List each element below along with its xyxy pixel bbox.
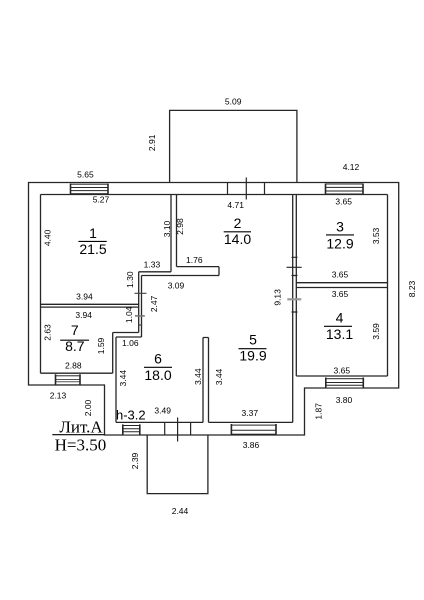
svg-text:18.0: 18.0 <box>144 367 171 383</box>
ticks wall A <box>135 293 147 325</box>
svg-text:9.13: 9.13 <box>273 289 283 306</box>
svg-text:3.37: 3.37 <box>242 408 259 418</box>
door ticks bottom wall <box>165 418 191 442</box>
central wall rooms 2,5 / 3,4 <box>293 195 297 423</box>
inner line bottom band room 6 <box>116 421 203 423</box>
window W4 bottom (room4) <box>326 378 364 389</box>
inner wall left line <box>40 195 42 374</box>
svg-text:4.71: 4.71 <box>227 200 244 210</box>
divider wall rooms 3/4 <box>296 283 387 288</box>
svg-text:13.1: 13.1 <box>326 326 353 342</box>
door ticks top wall <box>228 178 265 200</box>
svg-text:7: 7 <box>71 322 79 338</box>
wall A vertical (1.30/1.04) <box>139 272 142 337</box>
svg-text:3.10: 3.10 <box>162 220 172 237</box>
svg-text:1.06: 1.06 <box>122 338 139 348</box>
svg-text:3.53: 3.53 <box>371 227 381 244</box>
inner line bottom band room 5 <box>209 421 293 423</box>
svg-text:5.27: 5.27 <box>93 194 110 204</box>
window W7 bottom-left (room7) <box>56 374 81 385</box>
svg-text:3: 3 <box>336 218 344 234</box>
svg-text:1.33: 1.33 <box>144 259 161 269</box>
svg-text:Н=3.50: Н=3.50 <box>55 435 107 454</box>
svg-text:8.7: 8.7 <box>65 338 85 354</box>
svg-text:3.09: 3.09 <box>168 280 185 290</box>
door ticks central wall <box>287 257 302 312</box>
svg-text:1.30: 1.30 <box>125 271 135 288</box>
svg-text:3.44: 3.44 <box>214 368 224 385</box>
window W1 top (room1) <box>71 184 109 195</box>
svg-text:3.59: 3.59 <box>371 323 381 340</box>
svg-text:2.44: 2.44 <box>172 506 189 516</box>
window W3 top (room3) <box>326 184 364 195</box>
wall room6/5 <box>203 338 209 423</box>
svg-text:19.9: 19.9 <box>239 348 266 364</box>
corridor wall 1.33 <box>139 271 171 273</box>
svg-text:2.91: 2.91 <box>147 134 157 151</box>
svg-text:3.49: 3.49 <box>154 406 171 416</box>
svg-text:3.65: 3.65 <box>335 196 352 206</box>
corridor wall 1.76 <box>142 267 220 276</box>
svg-text:3.86: 3.86 <box>243 440 260 450</box>
wall A step to wall B <box>113 333 142 338</box>
top porch <box>170 110 297 182</box>
inner wall bottom-left line <box>41 372 113 374</box>
wall B vertical (room6 left) <box>113 333 116 423</box>
svg-text:2.88: 2.88 <box>65 360 82 370</box>
svg-text:2: 2 <box>234 215 242 231</box>
svg-text:14.0: 14.0 <box>224 231 251 247</box>
svg-text:3.44: 3.44 <box>118 370 128 387</box>
svg-text:12.9: 12.9 <box>326 235 353 251</box>
svg-text:4.12: 4.12 <box>343 162 360 172</box>
svg-text:2.39: 2.39 <box>130 452 140 469</box>
room2 left wall <box>171 195 177 272</box>
inner wall bottom-right line (room 4) <box>296 375 387 377</box>
svg-text:1.76: 1.76 <box>186 255 203 265</box>
bottom porch <box>147 435 208 494</box>
svg-text:1.87: 1.87 <box>313 403 323 420</box>
inner wall right line <box>387 195 389 377</box>
svg-text:3.65: 3.65 <box>332 289 349 299</box>
svg-text:4.40: 4.40 <box>43 229 53 246</box>
svg-text:3.94: 3.94 <box>75 310 92 320</box>
svg-text:1.04: 1.04 <box>124 306 134 323</box>
svg-text:3.65: 3.65 <box>334 366 351 376</box>
svg-text:5.65: 5.65 <box>77 169 94 179</box>
svg-text:2.00: 2.00 <box>83 399 93 416</box>
svg-text:8.23: 8.23 <box>407 280 417 297</box>
window W5 bottom (room5) <box>231 424 276 435</box>
window W6 bottom small (room6) <box>123 424 140 435</box>
svg-text:21.5: 21.5 <box>79 241 106 257</box>
svg-text:6: 6 <box>154 351 162 367</box>
svg-text:4: 4 <box>336 310 344 326</box>
svg-text:2.63: 2.63 <box>42 324 52 341</box>
svg-text:5.09: 5.09 <box>225 96 242 106</box>
svg-text:3.94: 3.94 <box>76 292 93 302</box>
litera underline <box>52 434 104 436</box>
inner wall top line <box>41 194 388 196</box>
svg-text:2.98: 2.98 <box>175 218 185 235</box>
svg-text:1.59: 1.59 <box>96 337 106 354</box>
svg-text:2.47: 2.47 <box>149 295 159 312</box>
gray door tick central wall <box>287 298 301 300</box>
svg-text:1: 1 <box>89 225 97 241</box>
svg-text:3.80: 3.80 <box>336 395 353 405</box>
svg-text:Лит.А: Лит.А <box>59 418 103 437</box>
svg-text:3.44: 3.44 <box>193 368 203 385</box>
svg-text:5: 5 <box>249 332 257 348</box>
svg-text:h-3.2: h-3.2 <box>116 408 146 423</box>
wall room1 bottom (3.94) <box>41 304 139 307</box>
outer wall contour <box>29 183 399 436</box>
svg-text:2.13: 2.13 <box>50 390 67 400</box>
svg-text:3.65: 3.65 <box>332 270 349 280</box>
